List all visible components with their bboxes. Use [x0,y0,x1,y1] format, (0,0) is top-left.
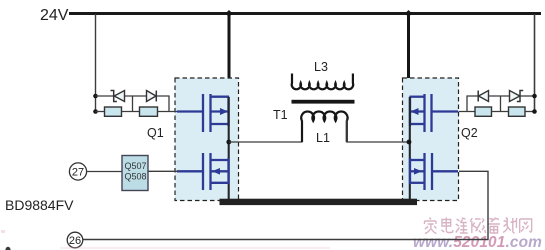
junction dot on rail at Q1 drop [225,10,232,17]
wire Q2 gate network stub [459,111,476,113]
bus thick bottom bar (primary return) [220,199,418,205]
wire Q2 leg spine [409,97,411,199]
wire right pull-up vertical from 24V rail [534,14,536,112]
wire link between right diode row and resistor row [500,96,502,112]
svg-text:Q2: Q2 [461,126,478,140]
wire thick drop to Q1 drain [228,14,231,99]
svg-text:BD9884FV: BD9884FV [5,197,74,213]
watermark bottom-left speck [1,230,5,233]
node Q1 half-bridge output dot [226,140,231,145]
transistor Q1 bottom N-MOSFET [177,153,229,190]
wire thick drop to Q2 drain [407,14,410,99]
inductor L3 secondary winding [292,74,354,90]
svg-text:Q508: Q508 [125,172,147,182]
svg-text:T1: T1 [273,108,288,122]
node junction dot right network top [532,94,537,99]
wire D4 to right node [520,95,535,97]
diode D3 triangle [479,91,489,102]
diode D2 cathode bar [155,91,157,102]
wire pin 27 to driver box [87,171,122,173]
module Q1 dashed box [175,78,239,201]
inductor L1 primary winding [301,112,347,142]
resistor R2 [140,107,158,116]
wire D2 to corner down to resistor row [156,96,169,112]
node Q2 half-bridge output dot [407,140,412,145]
svg-text:L1: L1 [316,131,330,145]
svg-text:27: 27 [72,167,84,179]
mark cut-off ink blob bottom-left [5,247,10,250]
svg-text:L3: L3 [314,60,328,74]
transistor Q2 top P-MOSFET body arrow [411,108,419,115]
svg-text:24V: 24V [40,7,69,24]
zener diode D4 cathode bar [517,91,523,102]
wire link between diode row and resistor row [132,96,134,112]
wire Q2 output to L1 right lead [347,118,409,142]
wire Q1 leg spine [228,97,230,199]
wire Q1 output to L1 left lead [229,118,302,142]
watermark chinese characters [424,218,531,234]
wire R1 to R2 [122,111,140,113]
pin 27 circle [69,163,86,180]
node junction dot left network top [93,94,98,99]
node junction dot left network bottom [93,109,98,114]
wire corner up to diode row right network [467,96,478,112]
svg-text:26: 26 [69,235,81,247]
resistor R1 [105,107,122,116]
node junction dot right network bottom [532,109,537,114]
diode D3 cathode bar [477,91,479,102]
transformer T1 core bar [292,100,355,104]
wire R3 to R4 [492,111,509,113]
wire node to resistor R1 [96,111,105,113]
diode D2 triangle [147,91,157,102]
transistor Q1 bottom N-MOSFET body arrow [212,168,220,175]
transistor Q2 bottom N-MOSFET [410,153,458,190]
transistor Q2 bottom N-MOSFET body arrow [414,168,422,175]
wire node to zener D1 [96,95,114,97]
wire left pull-up vertical from 24V rail [95,14,97,112]
wire D3 to D4 [489,95,510,97]
transistor driver box Q507/Q508 [122,156,148,191]
svg-text:Q507: Q507 [125,161,147,171]
wire driver box to Q1 bottom gate [148,170,178,172]
svg-text:Q1: Q1 [147,126,164,140]
transistor Q1 top P-MOSFET body arrow [220,108,228,115]
zener diode D1 triangle [114,91,124,102]
junction dot on rail at Q2 drop [405,10,412,17]
wire 24V top rail [69,12,541,15]
wire pin 26 to Q2 bottom gate [83,171,488,239]
transistor Q1 top P-MOSFET [177,94,229,132]
transistor Q2 top P-MOSFET [410,94,459,132]
resistor R3 [475,107,492,116]
wire R2 to Q1 gate [158,111,179,113]
pin 26 circle [67,232,83,248]
resistor R4 [509,107,526,116]
zener diode D1 cathode bar [111,91,117,102]
watermark bottom scraps [60,247,330,249]
zener diode D4 triangle [510,91,520,102]
wire R4 to right node [525,111,535,113]
module Q2 dashed box [403,78,459,201]
svg-text:www.520101.com: www.520101.com [413,234,542,250]
wire D1 to D2 [125,95,147,97]
